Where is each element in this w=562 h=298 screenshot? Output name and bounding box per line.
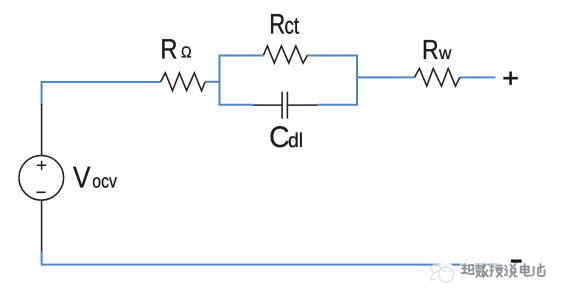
svg-text:R: R [269,7,285,39]
svg-text:R: R [160,33,177,64]
svg-text:R: R [422,34,439,65]
svg-text:C: C [269,121,289,154]
svg-text:ct: ct [285,12,300,38]
svg-text:w: w [438,43,452,63]
svg-text:Ω: Ω [181,45,192,62]
svg-text:ocv: ocv [92,172,117,193]
svg-text:V: V [73,162,91,195]
svg-text:dl: dl [288,130,303,152]
